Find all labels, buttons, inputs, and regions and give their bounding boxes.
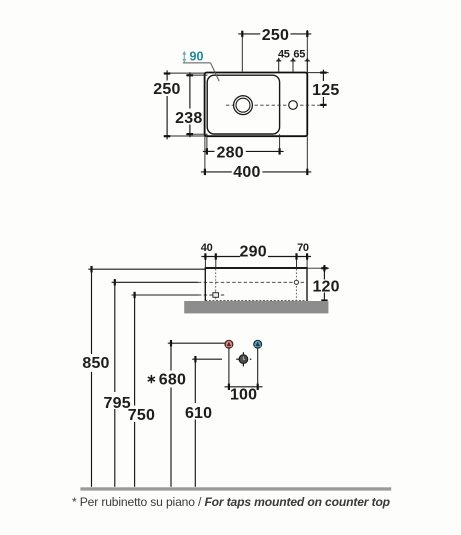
- svg-text:250: 250: [262, 27, 289, 44]
- hot water tap symbol (red): [225, 340, 233, 348]
- 850 connector tick: [90, 266, 92, 272]
- dashed vertical at right hole: [295, 269, 297, 300]
- dimension 250 (top) tick right: [306, 31, 308, 37]
- dimension row ticks: [204, 253, 206, 259]
- svg-text:250: 250: [153, 81, 180, 98]
- 795 connector tick: [114, 279, 116, 285]
- dimension 125 tick bottom: [320, 104, 326, 106]
- dimension 750 vertical line: [134, 295, 136, 406]
- svg-text:610: 610: [185, 405, 212, 422]
- 610 connector tick: [194, 356, 196, 362]
- 750 connector tick: [134, 292, 136, 298]
- fixing hole square symbol: [213, 291, 219, 299]
- svg-text:70: 70: [297, 242, 309, 254]
- dimension 280 dimension line: [203, 150, 215, 152]
- depth 90 up-down arrow icon: [182, 51, 186, 63]
- dimension 795 vertical line: [114, 282, 116, 392]
- svg-text:* Per rubinetto su piano / For: * Per rubinetto su piano / For taps moun…: [72, 495, 390, 509]
- tap extension line right: [257, 348, 259, 387]
- dimension 250 (left) tick bottom: [164, 135, 170, 137]
- dimension 250 (top) extension line right: [306, 30, 308, 73]
- dimension 250 (top) dimension line: [238, 33, 260, 35]
- 850 top connector line (rim level): [88, 268, 205, 270]
- basin elevation rectangle (290 x 120): [205, 268, 307, 301]
- small hole circle in elevation: [294, 280, 298, 284]
- dimension 238 tick bottom: [187, 133, 193, 135]
- dimension 238 extension line top: [186, 74, 208, 76]
- svg-text:280: 280: [217, 144, 244, 161]
- 610 connector line (drain level): [192, 358, 222, 360]
- up arrow at tap hole center: [290, 57, 295, 71]
- svg-text:680: 680: [159, 372, 186, 389]
- dashed vertical at left fixing hole: [215, 269, 217, 300]
- dimension 400 tick right: [306, 169, 308, 175]
- basin elevation bottom dotted edge: [205, 299, 307, 301]
- up arrow at rim right edge: [305, 57, 310, 71]
- svg-text:850: 850: [82, 355, 109, 372]
- dimension 400 extension line right: [306, 136, 308, 174]
- drain outer circle: [234, 96, 253, 115]
- svg-text:40: 40: [201, 242, 213, 254]
- dimension 120 tick bottom: [321, 299, 327, 301]
- dimension 100 dimension line: [225, 386, 263, 388]
- svg-text:290: 290: [240, 244, 267, 261]
- dimension 238 tick top: [187, 74, 193, 76]
- elevation centerline dashed: [198, 281, 307, 283]
- 750 dashed continuation: [198, 294, 226, 296]
- dimension 120 dimension line: [323, 265, 325, 280]
- svg-text:795: 795: [104, 395, 131, 412]
- dimension 250 (top) extension line left: [241, 36, 243, 72]
- tap hole circle: [289, 101, 298, 110]
- drain point symbol: [236, 352, 251, 366]
- bowl inner rounded rectangle (280 x 238): [207, 75, 279, 134]
- svg-text:100: 100: [230, 387, 257, 404]
- svg-text:90: 90: [190, 49, 204, 63]
- dimension 120 tick top: [323, 265, 325, 271]
- top dimension row: extension verticals: [204, 254, 206, 268]
- 750 connector line (fixing hole level): [131, 294, 198, 296]
- dimension 250 (top) tick left: [241, 31, 243, 37]
- svg-text:45: 45: [278, 48, 290, 60]
- up arrow at bowl right edge: [276, 57, 281, 71]
- svg-text:65: 65: [293, 48, 305, 60]
- dimension row line: [201, 256, 240, 258]
- dimension 238 extension line bottom: [186, 133, 208, 135]
- dimension 250 (left) extension line top: [164, 72, 205, 74]
- dimension 400 tick left: [204, 169, 206, 175]
- counter top slab (gray): [184, 301, 328, 313]
- dimension 100 tick right: [257, 384, 259, 390]
- svg-text:238: 238: [175, 110, 202, 127]
- dimension 280 extension line left: [206, 134, 208, 153]
- dimension 238 dimension line: [189, 72, 191, 108]
- dimension 250 (left) tick top: [164, 72, 170, 74]
- dimension 850 vertical line: [91, 269, 93, 354]
- depth 90 leader diagonal into bowl: [211, 63, 220, 81]
- svg-text:750: 750: [128, 407, 155, 424]
- floor line (gray): [80, 487, 391, 490]
- dimension 250 (left) dimension line: [166, 70, 168, 80]
- basin elevation rectangle edges: [205, 267, 308, 269]
- dimension 680 vertical line: [170, 343, 172, 370]
- 795 connector line (tap hole level): [112, 281, 198, 283]
- svg-text:400: 400: [233, 164, 260, 181]
- basin outer rim rectangle (400 x 250): [205, 73, 308, 137]
- 680 connector tick: [170, 340, 172, 346]
- 680 connector line (tap level): [168, 342, 225, 344]
- dimension 400 extension line left: [204, 136, 206, 174]
- drain inner circle: [236, 98, 250, 112]
- tap extension line left: [228, 348, 230, 387]
- dimension 280 tick right: [279, 148, 281, 154]
- dimension 100 tick left: [228, 384, 230, 390]
- depth 90 leader underline: [183, 62, 211, 64]
- svg-text:125: 125: [312, 82, 339, 99]
- dimension 610 vertical line: [194, 359, 196, 403]
- horizontal centerline (dash-dot) through drain and tap hole: [226, 104, 324, 106]
- dimension 125 extension line top: [307, 72, 328, 74]
- dimension 250 (left) extension line bottom: [164, 135, 205, 137]
- dimension 125 dimension line: [322, 70, 324, 81]
- svg-text:120: 120: [312, 279, 339, 296]
- dimension 125 tick top: [320, 71, 326, 73]
- svg-text:∗: ∗: [146, 372, 156, 386]
- cold water tap symbol (blue): [254, 340, 262, 348]
- dimension 280 tick left: [206, 148, 208, 154]
- dimension 120 extension line top: [307, 267, 329, 269]
- dimension 280 extension line right: [279, 134, 281, 153]
- dimension 400 dimension line: [201, 171, 232, 173]
